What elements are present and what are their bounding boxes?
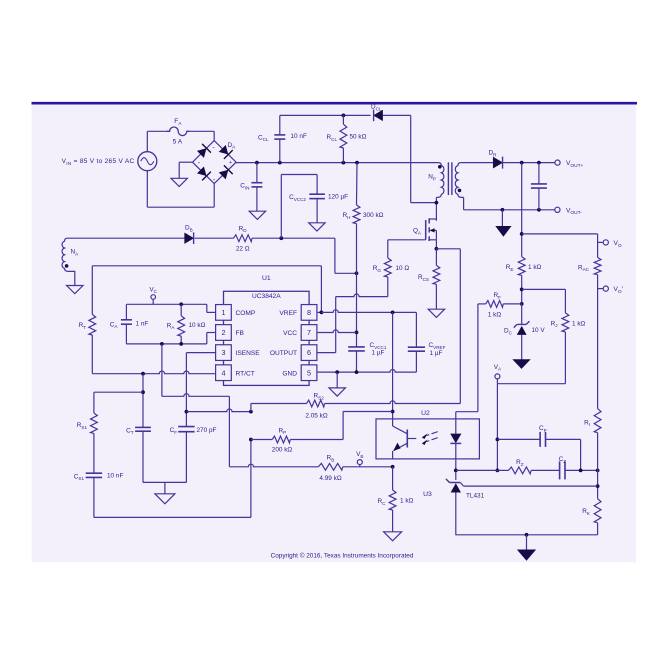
node RS1 line	[141, 390, 145, 394]
svg-text:1: 1	[222, 308, 226, 317]
terminal VA	[495, 374, 500, 384]
label RAC	[578, 264, 590, 272]
pin 6 box	[301, 345, 317, 361]
label RI	[584, 419, 590, 427]
wire RT/CT line	[92, 371, 215, 374]
label RT/CT	[236, 370, 255, 377]
terminal VC	[151, 295, 156, 305]
wire RD to VCC node	[252, 238, 357, 273]
wire RCS node to sense line	[436, 249, 460, 404]
fuse FA	[167, 127, 190, 136]
transformer secondary NS	[455, 163, 463, 198]
svg-text:VIN = 85 V to 265 V AC: VIN = 85 V to 265 V AC	[62, 158, 135, 166]
svg-text:1 kΩ: 1 kΩ	[400, 498, 414, 505]
svg-text:+: +	[229, 160, 232, 166]
bridge diode bottom-right	[218, 165, 233, 180]
svg-text:10 kΩ: 10 kΩ	[189, 322, 206, 329]
label 120 uF value CVCC2	[328, 193, 348, 200]
wire NA to DB	[68, 237, 185, 239]
node VOUT+ branch	[520, 161, 524, 165]
capacitor CVCC2 branch	[281, 175, 325, 239]
label RG	[373, 265, 382, 273]
node comp to RI	[596, 469, 600, 473]
node RA bottom	[179, 342, 183, 346]
label DA	[228, 142, 237, 150]
terminal VOUT-	[555, 207, 560, 212]
label CF	[170, 427, 178, 435]
label VCC	[283, 330, 297, 337]
wire bottom ground stem	[526, 535, 528, 550]
wire FB jog line	[162, 394, 230, 397]
svg-text:10 V: 10 V	[532, 327, 546, 334]
wire FB jog down	[228, 396, 230, 467]
terminal VO'	[598, 286, 609, 291]
top band line	[32, 102, 638, 105]
resistor RP	[251, 436, 290, 443]
svg-text:U2: U2	[421, 410, 430, 417]
label 1 uF value CVREF	[430, 350, 443, 357]
phase dot secondary	[458, 189, 462, 193]
node GND ground stem	[335, 370, 339, 374]
node QA source	[435, 247, 439, 251]
ground zener filled	[513, 360, 530, 369]
node VCC pin line	[355, 331, 359, 335]
svg-text:1 kΩ: 1 kΩ	[528, 264, 542, 271]
schematic panel	[32, 104, 637, 562]
svg-text:10 nF: 10 nF	[291, 133, 307, 140]
resistor RG	[384, 240, 391, 297]
label UC3842A	[252, 293, 281, 300]
label VA	[494, 364, 502, 372]
ground CIN	[249, 211, 265, 219]
wire AC source bottom	[147, 171, 214, 208]
svg-text:6: 6	[307, 348, 311, 357]
label RE	[506, 264, 514, 272]
node pin8	[320, 311, 324, 315]
node out gnd	[501, 208, 505, 212]
diode DCL	[374, 110, 383, 122]
label 1 kOhm value RF	[488, 311, 502, 318]
label VO	[614, 240, 622, 249]
node CT branch	[141, 372, 145, 376]
svg-text:U1: U1	[262, 275, 271, 282]
svg-text:10 Ω: 10 Ω	[396, 265, 410, 272]
capacitor CA	[121, 304, 132, 344]
wire bottom sense rail	[94, 440, 251, 518]
label RD	[239, 225, 248, 233]
diode opto LED	[450, 419, 461, 471]
wire RP to collector node	[290, 412, 392, 440]
label 1 kOhm value RC	[400, 498, 414, 505]
svg-text:VREF: VREF	[279, 310, 297, 317]
capacitor CVREF	[408, 312, 425, 372]
label 1 nF value CA	[136, 321, 149, 328]
label CT	[126, 427, 134, 435]
node primary bottom drain	[435, 201, 439, 205]
wire LED anode feed	[456, 304, 478, 419]
node RP left	[249, 438, 253, 442]
label DB	[185, 225, 193, 233]
label DC zener	[504, 328, 513, 336]
label RT	[79, 322, 87, 330]
svg-text:COMP: COMP	[236, 310, 256, 317]
ground output filled	[496, 226, 511, 236]
capacitor Cout	[531, 163, 547, 210]
svg-text:200 kΩ: 200 kΩ	[272, 447, 293, 454]
wire VCC vertical	[356, 273, 358, 347]
resistor RE	[518, 257, 525, 304]
label RH	[343, 212, 351, 220]
wire gate line	[388, 239, 426, 241]
label 10 V value DC	[532, 327, 546, 334]
label CP	[539, 425, 547, 433]
resistor RF	[478, 301, 522, 308]
node CVCC1 bottom	[355, 370, 359, 374]
node emitter RB RC	[391, 465, 395, 469]
node CVCC2 tap	[279, 236, 283, 240]
label RCL	[327, 134, 338, 142]
pin 4 box	[216, 365, 232, 381]
node TL431 cathode	[454, 469, 458, 473]
label DR	[489, 150, 498, 158]
label 1 uF value CVCC1	[372, 350, 385, 357]
label 10 Ohm value RG	[396, 265, 410, 272]
diode DB	[185, 232, 194, 244]
svg-text:RT/CT: RT/CT	[236, 370, 255, 377]
node CIN top	[255, 161, 259, 165]
svg-text:1 nF: 1 nF	[136, 321, 149, 328]
wire DCL to drain node	[383, 115, 437, 202]
label U2	[421, 410, 430, 417]
AC source VIN	[138, 152, 157, 171]
wire RS1 jog	[94, 392, 143, 413]
wire RK bottom rail	[455, 534, 597, 536]
wire bridge left to ground	[179, 162, 192, 178]
wire out ground stem	[501, 210, 503, 227]
wire ISENSE stub	[186, 353, 215, 427]
wire RB to emitter node	[343, 466, 393, 468]
wire RS2 to sense vertical	[325, 401, 461, 404]
wire primary bottom to drain	[435, 197, 437, 220]
node sense branch	[520, 232, 524, 236]
resistor RA	[178, 304, 185, 344]
wire secondary to DR	[461, 162, 493, 164]
ground CVCC2	[309, 223, 325, 231]
ground RCS	[428, 309, 444, 317]
capacitor CIN	[251, 163, 262, 212]
svg-text:1 kΩ: 1 kΩ	[572, 320, 586, 327]
node CP left	[496, 438, 500, 442]
wire VCC pin line	[317, 330, 357, 333]
wire CT CF ground rail	[143, 482, 186, 493]
label CVREF	[429, 342, 446, 350]
wire CF to sense node	[186, 409, 251, 412]
label 2.05 kOhm value RS2	[305, 412, 327, 419]
label CS1	[74, 473, 85, 481]
terminal VO	[598, 240, 609, 245]
bridge rectifier DA outline	[193, 141, 237, 184]
label QA	[413, 228, 422, 236]
label 10 kOhm value RA	[189, 322, 206, 329]
wire LED cathode line	[455, 470, 457, 480]
wire QA source to RCS node	[435, 240, 437, 249]
pin 2 box	[216, 325, 232, 341]
svg-text:7: 7	[307, 328, 311, 337]
node RA top	[179, 302, 183, 306]
label 1 kOhm value RJ	[572, 320, 586, 327]
capacitor CP	[497, 432, 580, 471]
pin 1 box	[216, 305, 232, 321]
wire AC source top to fuse	[147, 131, 168, 151]
resistor RJ	[562, 313, 569, 384]
bridge diode top-right	[218, 144, 233, 159]
node CP right	[579, 469, 583, 473]
node RCL bottom	[342, 161, 346, 165]
resistor RZ	[497, 467, 531, 474]
label NP	[428, 174, 436, 182]
ground NA	[67, 286, 83, 294]
label VIN = 85 V to 265 V AC	[62, 158, 135, 166]
svg-text:OUTPUT: OUTPUT	[270, 350, 297, 357]
svg-text:1 µF: 1 µF	[430, 350, 443, 357]
wire RG to OUTPUT vertical	[336, 294, 388, 297]
svg-text:22 Ω: 22 Ω	[236, 246, 250, 253]
ground CT CF	[155, 494, 175, 504]
svg-text:2: 2	[222, 328, 226, 337]
wire VOUT+ rail	[503, 162, 555, 164]
wire OUTPUT pin line	[317, 352, 336, 354]
svg-text:1 kΩ: 1 kΩ	[488, 311, 502, 318]
label RA	[167, 322, 176, 330]
optocoupler U2 box	[376, 419, 479, 459]
svg-text:VCC: VCC	[283, 330, 297, 337]
svg-text:2.05 kΩ: 2.05 kΩ	[305, 412, 327, 419]
svg-text:50 kΩ: 50 kΩ	[350, 134, 367, 141]
label U3	[423, 491, 432, 498]
label VO'	[614, 286, 624, 295]
wire ground stem pin5	[336, 372, 338, 388]
node VREF down branch	[391, 311, 395, 315]
ground bottom filled	[518, 550, 536, 561]
capacitor CT	[135, 427, 151, 482]
svg-text:TL431: TL431	[466, 493, 485, 500]
label RJ	[551, 320, 558, 328]
label RK	[582, 508, 591, 516]
node RH top	[355, 161, 359, 165]
wire secondary bottom	[464, 197, 555, 209]
resistor RH	[353, 163, 360, 274]
label VC	[149, 286, 157, 294]
label 270 pF value CF	[197, 427, 217, 434]
wire clamp top rail	[280, 114, 371, 116]
svg-text:5 A: 5 A	[173, 138, 183, 145]
label GND	[282, 370, 297, 377]
wire RE bottom to RJ top	[522, 289, 566, 313]
transistor QA	[426, 218, 437, 241]
terminal VOUT+	[555, 160, 560, 165]
node RE bottom	[520, 288, 524, 292]
wire VOUT+ down sense	[521, 163, 523, 257]
resistor RT	[89, 266, 96, 374]
label VOUT-	[566, 207, 582, 216]
label VOUT+	[566, 160, 584, 169]
svg-text:Copyright © 2016, Texas Instru: Copyright © 2016, Texas Instruments Inco…	[271, 552, 414, 560]
wire OUTPUT vertical	[335, 297, 337, 353]
node RH bottom VCC	[355, 271, 359, 275]
wire DB to RD	[195, 237, 234, 239]
capacitor CCL	[274, 115, 285, 162]
resistor RD	[234, 235, 253, 242]
wire GND pin rail	[317, 370, 417, 373]
svg-text:4.99 kΩ: 4.99 kΩ	[319, 475, 341, 482]
label 300 kOhm value RH	[363, 212, 384, 219]
wire VREF top rail	[92, 266, 321, 313]
label copyright	[271, 552, 414, 560]
svg-text:5: 5	[307, 368, 311, 377]
label 22 Ohm value RD	[236, 246, 250, 253]
resistor RC	[389, 467, 396, 532]
resistor RI	[594, 409, 601, 499]
label FB	[236, 330, 245, 337]
label CCL	[258, 134, 269, 142]
terminal VB	[357, 460, 362, 467]
resistor RK	[594, 499, 601, 535]
wire sense to RAC	[522, 234, 598, 258]
label 10 nF value CCL	[291, 133, 307, 140]
capacitor CS1	[86, 473, 102, 517]
svg-text:300 kΩ: 300 kΩ	[363, 212, 384, 219]
label TL431	[466, 493, 485, 500]
ground bridge	[171, 178, 187, 186]
label RCS	[418, 274, 429, 282]
wire sense node up	[251, 404, 307, 412]
resistor RS1	[91, 413, 98, 473]
node REF line	[596, 484, 600, 488]
op-amp U1 UC3842A box	[224, 291, 310, 385]
label RB	[327, 455, 335, 463]
wire VA to RJ bottom	[497, 383, 565, 385]
wire VA down vertical	[496, 384, 498, 471]
node sense mid	[249, 410, 253, 414]
bridge diode bottom-left	[196, 166, 211, 181]
label VREF	[279, 310, 297, 317]
ground pin5	[329, 388, 345, 396]
wire COMP top rail	[126, 304, 215, 312]
label RZ	[516, 459, 524, 467]
svg-text:8: 8	[307, 308, 311, 317]
svg-text:UC3842A: UC3842A	[252, 293, 281, 300]
label RC	[378, 498, 387, 506]
phase dot NA	[65, 264, 69, 268]
label OUTPUT	[270, 350, 297, 357]
svg-text:10 nF: 10 nF	[107, 473, 123, 480]
bridge diode top-left	[196, 144, 211, 159]
diode DR	[493, 157, 502, 169]
svg-text:3: 3	[222, 348, 226, 357]
label RF	[494, 292, 502, 300]
svg-text:270 pF: 270 pF	[197, 427, 217, 434]
label ISENSE	[236, 350, 261, 357]
opto light arrows	[422, 432, 438, 445]
label 4.99 kOhm value RB	[319, 475, 341, 482]
label VB	[356, 451, 363, 459]
bridge polarity marks	[198, 145, 233, 184]
ground RC	[384, 532, 402, 541]
node RZ left	[496, 469, 500, 473]
wire VREF down vertical	[392, 312, 394, 419]
label RS1	[77, 422, 88, 430]
capacitor CZ	[531, 461, 598, 479]
wire RB line	[229, 464, 318, 467]
resistor RS2	[307, 400, 325, 407]
wire DC bus rail	[236, 162, 438, 164]
label CVCC1	[370, 342, 387, 350]
wire FB branch vertical	[161, 344, 163, 396]
wire TL431 ref line	[464, 485, 598, 487]
label CA	[110, 321, 119, 329]
zener DC	[514, 304, 530, 360]
node bottom ground	[525, 533, 529, 537]
wire fuse to bridge top	[190, 131, 215, 140]
transistor TL431	[446, 479, 464, 535]
node clamp RCL top	[342, 114, 346, 118]
pin 8 box	[301, 305, 317, 321]
wire FB bottom rail	[126, 333, 215, 344]
node CCL bottom	[278, 161, 282, 165]
label RS2	[314, 393, 325, 401]
node RP right	[391, 410, 395, 414]
node ISENSE CF	[185, 410, 189, 414]
node RF zener	[520, 302, 524, 306]
capacitor CVCC1	[348, 347, 365, 372]
wire cathode to comp	[456, 469, 498, 471]
label FA	[174, 118, 182, 127]
resistor RAC	[594, 257, 601, 408]
svg-text:1 µF: 1 µF	[372, 350, 385, 357]
pin 7 box	[301, 325, 317, 341]
pin 5 box	[301, 365, 317, 381]
label CIN	[240, 183, 249, 191]
label DCL	[371, 104, 382, 112]
node cap out top	[537, 161, 541, 165]
node FB branch	[160, 342, 164, 346]
svg-text:FB: FB	[236, 330, 245, 337]
resistor RCS	[433, 249, 440, 309]
label 5 A	[173, 138, 183, 145]
transformer core	[448, 162, 452, 195]
transformer primary NP	[436, 163, 443, 198]
label COMP	[236, 310, 256, 317]
label 1 kOhm value RE	[528, 264, 542, 271]
resistor RCL	[340, 115, 347, 162]
label U1	[262, 275, 271, 282]
wire CT vertical	[142, 374, 144, 428]
label CVCC2	[289, 194, 306, 202]
label 10 nF value CS1	[107, 473, 123, 480]
node cap out bottom	[537, 208, 541, 212]
wire VREF pin rail	[321, 310, 416, 313]
label CZ	[559, 456, 567, 464]
label 50 kOhm value RCL	[350, 134, 367, 141]
pin 3 box	[216, 345, 232, 361]
svg-text:120 µF: 120 µF	[328, 193, 348, 200]
label 200 kOhm value RP	[272, 447, 293, 454]
transistor opto phototransistor	[393, 419, 417, 459]
svg-text:GND: GND	[282, 370, 297, 377]
resistor RB	[318, 463, 343, 470]
svg-text:ISENSE: ISENSE	[236, 350, 261, 357]
capacitor CF	[178, 427, 194, 483]
